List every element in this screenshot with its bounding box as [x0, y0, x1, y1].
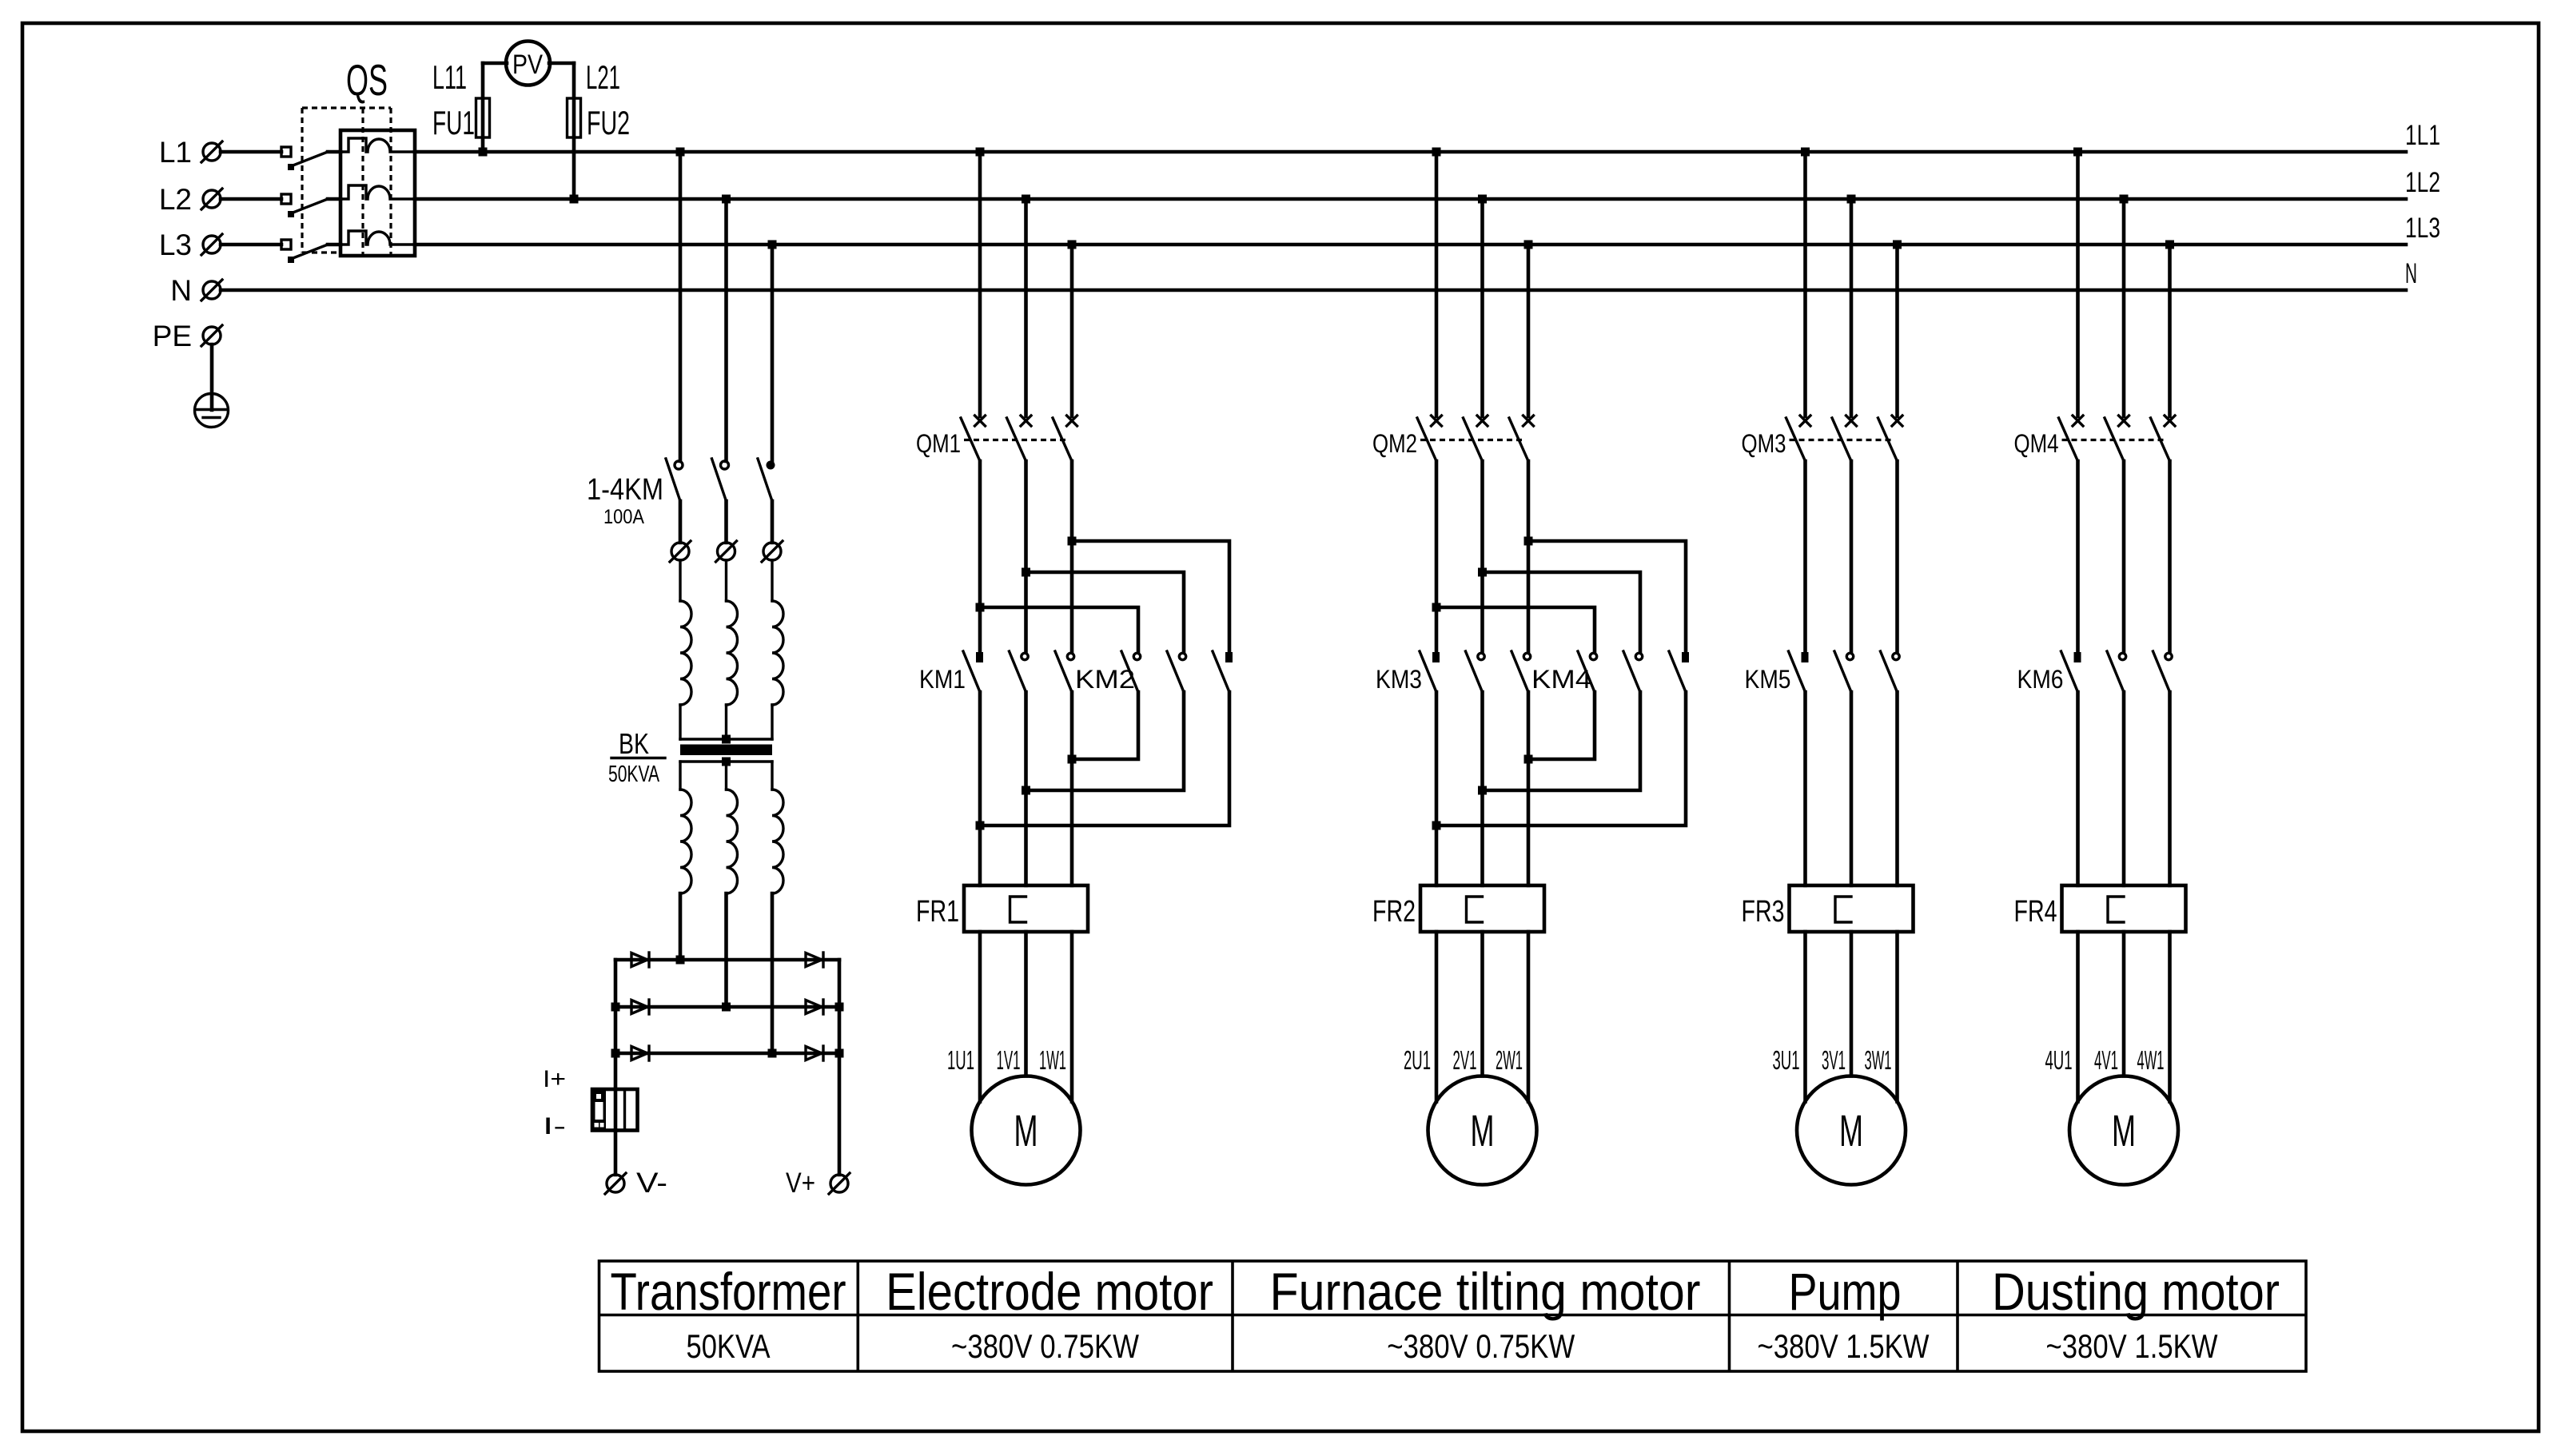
wire bus 1L1 — [221, 120, 2440, 152]
terminal V- — [605, 1168, 667, 1199]
svg-text:FU2: FU2 — [587, 104, 630, 141]
svg-text:QM1: QM1 — [916, 429, 961, 458]
svg-text:N: N — [2405, 258, 2417, 289]
svg-text:Dusting motor: Dusting motor — [1992, 1262, 2280, 1321]
svg-text:I+: I+ — [543, 1066, 566, 1092]
diode D6 — [806, 1046, 823, 1060]
contactor KM4 — [1531, 651, 1689, 694]
svg-text:V+: V+ — [786, 1168, 815, 1199]
wire KM1 to FR1 — [980, 692, 1072, 885]
contactor 1-4KM — [587, 152, 775, 543]
terminal transformer input 1 — [670, 541, 691, 562]
wire PE to ground — [210, 344, 214, 410]
svg-text:BK: BK — [619, 727, 649, 760]
svg-text:KM5: KM5 — [1745, 665, 1791, 694]
wire shunt to V- — [614, 1131, 618, 1176]
motor M3 — [1797, 1076, 1906, 1185]
svg-text:1U1: 1U1 — [947, 1045, 974, 1075]
junction dots FU1 FU2 taps — [479, 148, 579, 204]
contactor KM6 — [2017, 651, 2173, 694]
transformer BK core — [680, 745, 772, 756]
junction dots QM1 bus taps — [976, 148, 1077, 249]
svg-text:KM1: KM1 — [919, 665, 966, 694]
wire bus 1L2 — [221, 167, 2440, 199]
contactor KM5 — [1745, 651, 1900, 694]
junction dots QM2 bus taps — [1432, 148, 1533, 249]
svg-text:~380V 0.75KW: ~380V 0.75KW — [1387, 1327, 1575, 1365]
svg-text:KM6: KM6 — [2017, 665, 2064, 694]
circuit breaker QM4 — [2014, 152, 2176, 461]
svg-text:Furnace tilting motor: Furnace tilting motor — [1270, 1262, 1701, 1321]
svg-text:50KVA: 50KVA — [608, 762, 659, 787]
svg-text:1-4KM: 1-4KM — [587, 473, 663, 507]
wire QM4 to KM6 — [2078, 461, 2170, 652]
svg-text:~380V 1.5KW: ~380V 1.5KW — [1758, 1327, 1930, 1365]
circuit breaker QM1 — [916, 152, 1077, 461]
shunt resistor (I+ / I-) — [543, 1066, 638, 1140]
svg-text:L3: L3 — [159, 229, 192, 261]
thermal relay FR1 — [916, 885, 1088, 932]
svg-text:FR2: FR2 — [1372, 895, 1416, 929]
terminal transformer input 2 — [716, 541, 737, 562]
transformer BK primary windings — [680, 560, 783, 744]
svg-text:QM3: QM3 — [1742, 429, 1786, 458]
svg-text:3V1: 3V1 — [1822, 1045, 1846, 1075]
diode D1 — [631, 953, 649, 967]
svg-text:QM4: QM4 — [2014, 429, 2059, 458]
thermal relay FR4 — [2014, 885, 2186, 932]
contactor KM1 — [919, 651, 1074, 694]
node L1 input terminal — [159, 136, 222, 169]
svg-text:Transformer: Transformer — [611, 1262, 846, 1321]
wire QM2 to KM3 — [1436, 461, 1528, 652]
svg-text:Pump: Pump — [1789, 1262, 1902, 1321]
junction dots QM3 bus taps — [1801, 148, 1902, 249]
svg-text:~380V 0.75KW: ~380V 0.75KW — [951, 1327, 1139, 1365]
thermal relay FR3 — [1742, 885, 1914, 932]
svg-text:4W1: 4W1 — [2137, 1045, 2165, 1075]
svg-text:1L1: 1L1 — [2405, 120, 2440, 151]
contactor KM2 — [1075, 651, 1233, 694]
transformer BK secondary windings — [680, 758, 783, 1054]
labels motor 2 terminals 2U1 2V1 2W1 — [1404, 1045, 1523, 1075]
switch QS pole L2 — [281, 194, 341, 217]
svg-text:1L3: 1L3 — [2405, 213, 2440, 244]
svg-text:2U1: 2U1 — [1404, 1045, 1431, 1075]
svg-text:KM4: KM4 — [1531, 665, 1591, 694]
wire QM1 to KM1 — [980, 461, 1072, 652]
thermal relay FR2 — [1372, 885, 1544, 932]
terminal transformer input 3 — [762, 541, 783, 562]
wire bus N — [221, 258, 2417, 290]
svg-text:1W1: 1W1 — [1039, 1045, 1066, 1075]
junction dots QM4 bus taps — [2073, 148, 2174, 249]
wire FR1 to motor M1 — [980, 932, 1072, 1102]
svg-text:2W1: 2W1 — [1496, 1045, 1523, 1075]
labels motor 1 terminals 1U1 1V1 1W1 — [947, 1045, 1066, 1075]
labels motor 3 terminals 3U1 3V1 3W1 — [1773, 1045, 1892, 1075]
ground (protective earth) — [195, 394, 229, 428]
svg-text:L2: L2 — [159, 183, 192, 216]
contactor KM3 — [1376, 651, 1531, 694]
junction dots feeder taps — [676, 148, 777, 249]
node PE input terminal — [153, 320, 222, 352]
svg-text:L1: L1 — [159, 136, 192, 169]
switch QS pole L3 — [281, 240, 341, 263]
svg-text:~380V 1.5KW: ~380V 1.5KW — [2046, 1327, 2218, 1365]
svg-text:KM2: KM2 — [1075, 665, 1135, 694]
svg-text:50KVA: 50KVA — [687, 1327, 771, 1365]
switch QS pole L1 — [281, 147, 341, 170]
wire KM3 to FR2 — [1436, 692, 1528, 885]
node N input terminal — [170, 274, 222, 307]
wire FR2 to motor M2 — [1436, 932, 1528, 1102]
svg-text:M: M — [1014, 1105, 1038, 1156]
wire QM3 to KM5 — [1806, 461, 1898, 652]
svg-text:Electrode motor: Electrode motor — [886, 1262, 1213, 1321]
svg-text:100A: 100A — [603, 506, 644, 528]
svg-text:V-: V- — [636, 1168, 667, 1199]
diode D2 — [806, 953, 823, 967]
motor M2 — [1428, 1076, 1537, 1185]
svg-text:M: M — [2112, 1105, 2136, 1156]
svg-text:FR3: FR3 — [1742, 895, 1785, 929]
node L2 input terminal — [159, 183, 222, 216]
svg-text:1V1: 1V1 — [997, 1045, 1021, 1075]
svg-text:1L2: 1L2 — [2405, 167, 2440, 198]
terminal V+ — [786, 1168, 850, 1199]
svg-text:FU1: FU1 — [432, 104, 475, 141]
wire FR4 to motor M4 — [2078, 932, 2170, 1102]
wire crossover KM2 bottom — [976, 692, 1230, 830]
svg-text:L21: L21 — [586, 58, 620, 96]
svg-text:QM2: QM2 — [1372, 429, 1417, 458]
svg-text:PE: PE — [153, 320, 192, 352]
diode D3 — [631, 1000, 649, 1014]
svg-text:4V1: 4V1 — [2094, 1045, 2118, 1075]
svg-text:I-: I- — [543, 1113, 566, 1140]
wire crossover to KM4 top — [1432, 537, 1687, 653]
motor M4 — [2069, 1076, 2178, 1185]
wire bus 1L3 — [221, 213, 2440, 245]
switch QS linkage (dashed) — [302, 108, 391, 256]
circuit breaker QM2 — [1372, 152, 1534, 461]
label BK 50KVA — [608, 727, 665, 787]
circuit breaker QM3 — [1742, 152, 1903, 461]
table specification — [599, 1261, 2307, 1371]
svg-text:3W1: 3W1 — [1865, 1045, 1892, 1075]
diode D4 — [806, 1000, 823, 1014]
rectifier bridge wires — [615, 960, 839, 1175]
svg-text:M: M — [1471, 1105, 1495, 1156]
labels motor 4 terminals 4U1 4V1 4W1 — [2045, 1045, 2165, 1075]
fuse-switch QS body — [341, 130, 415, 256]
svg-text:PV: PV — [512, 50, 543, 80]
svg-text:L11: L11 — [432, 58, 467, 96]
svg-text:M: M — [1839, 1105, 1863, 1156]
wire crossover to KM2 top — [976, 537, 1230, 653]
junction dots rectifier — [611, 956, 844, 1058]
node L3 input terminal — [159, 229, 222, 261]
svg-text:FR1: FR1 — [916, 895, 959, 929]
wire FR3 to motor M3 — [1806, 932, 1898, 1102]
svg-text:N: N — [170, 274, 192, 307]
fuse FU2 — [549, 63, 630, 199]
fuse FU1 — [432, 63, 507, 152]
svg-text:QS: QS — [346, 55, 388, 105]
motor M1 — [972, 1076, 1081, 1185]
svg-text:KM3: KM3 — [1376, 665, 1422, 694]
wire crossover KM4 bottom — [1432, 692, 1687, 830]
svg-text:3U1: 3U1 — [1773, 1045, 1800, 1075]
wire KM5 to FR3 — [1806, 692, 1898, 885]
wire KM6 to FR4 — [2078, 692, 2170, 885]
diode D5 — [631, 1046, 649, 1060]
svg-text:4U1: 4U1 — [2045, 1045, 2073, 1075]
svg-text:2V1: 2V1 — [1453, 1045, 1477, 1075]
svg-text:FR4: FR4 — [2014, 895, 2057, 929]
voltmeter PV — [506, 42, 550, 86]
